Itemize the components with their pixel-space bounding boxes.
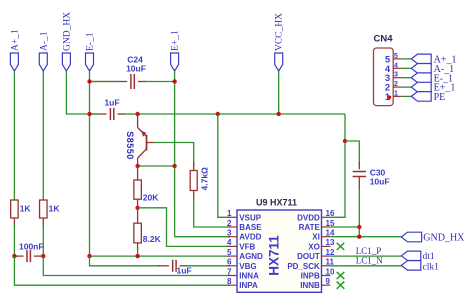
resistor R-4.7k bbox=[190, 171, 197, 191]
wire pin11 PD_SCK to clk1 bbox=[330, 265, 401, 267]
svg-text:INNA: INNA bbox=[239, 272, 259, 281]
port E-_1 (top) bbox=[86, 32, 96, 71]
svg-text:XO: XO bbox=[308, 242, 320, 251]
transistor S8550 bbox=[138, 114, 153, 166]
resistor R-8.2K lead top bbox=[137, 208, 139, 223]
wire pin12 DOUT to dt1 bbox=[330, 255, 401, 257]
svg-text:1: 1 bbox=[394, 90, 398, 97]
resistor R-1K (A+) bbox=[11, 200, 19, 218]
CN4 pin 4 lead bbox=[393, 67, 401, 69]
svg-text:A-_1: A-_1 bbox=[39, 31, 49, 51]
svg-text:clk1: clk1 bbox=[423, 263, 440, 273]
wire E+ vertical bbox=[174, 71, 176, 237]
wire right corner down to C30 node bbox=[344, 114, 346, 141]
CN4 pin1 marker dot bbox=[388, 95, 392, 99]
resistor R-1K lead bottom (A+) bbox=[13, 218, 15, 226]
capacitor C-1uF (VBG) bbox=[173, 260, 176, 272]
wire emitter node to VSUP column and VCC and right corner bbox=[138, 113, 345, 115]
wire pin14 XI to GND_HX port bbox=[330, 236, 401, 238]
svg-text:1K: 1K bbox=[20, 203, 32, 213]
svg-text:20K: 20K bbox=[143, 192, 159, 202]
wire VCC_HX vertical bbox=[278, 71, 280, 114]
wire A- vertical bbox=[42, 71, 44, 200]
pin 1 VSUP stub bbox=[228, 216, 238, 218]
junction S8550 emitter bbox=[135, 112, 139, 116]
junction E+ collector bbox=[172, 164, 176, 168]
port clk1 bbox=[401, 261, 421, 270]
pin 11 PD_SCK stub bbox=[322, 265, 331, 267]
wire 1uF to pin6 VBG bbox=[180, 265, 187, 267]
svg-text:1: 1 bbox=[227, 209, 232, 218]
capacitor C-1uF (left) bbox=[110, 108, 113, 120]
no-connect X bbox=[337, 243, 345, 250]
svg-text:LC1_P: LC1_P bbox=[356, 246, 382, 256]
svg-text:VBG: VBG bbox=[239, 262, 256, 271]
port GND_HX (top) bbox=[62, 12, 72, 71]
no-connect X bbox=[337, 282, 345, 289]
svg-text:E-_1: E-_1 bbox=[86, 32, 96, 51]
wire pin16 DVDD to VCC rail bbox=[330, 141, 345, 217]
resistor R-20K lead bottom bbox=[137, 199, 139, 208]
CN4 pin 3 lead bbox=[393, 77, 401, 79]
svg-text:4.7kΩ: 4.7kΩ bbox=[199, 167, 209, 191]
svg-text:VFB: VFB bbox=[239, 242, 255, 251]
wire CN4 pin 2 bbox=[402, 86, 412, 88]
wire CN4 pin 5 bbox=[402, 58, 412, 60]
junction GND/1uF row bbox=[87, 112, 91, 116]
svg-text:AGND: AGND bbox=[239, 252, 263, 261]
port E+_1 (top) bbox=[171, 30, 181, 71]
wire E- to C24 bbox=[90, 81, 128, 83]
port A+_1 (top) bbox=[10, 29, 20, 71]
svg-text:8: 8 bbox=[227, 277, 232, 286]
svg-text:6: 6 bbox=[227, 258, 232, 267]
wire E+ to pin3 AVDD bbox=[175, 236, 230, 238]
resistor R-20K lead top bbox=[137, 166, 139, 180]
svg-text:INPA: INPA bbox=[239, 281, 258, 290]
port VCC_HX (top) bbox=[275, 13, 285, 71]
junction collector node bbox=[135, 164, 139, 168]
wire E- vertical bbox=[89, 71, 91, 256]
svg-text:8.2K: 8.2K bbox=[143, 234, 162, 244]
resistor R-20K bbox=[134, 180, 142, 199]
resistor R-8.2K bbox=[134, 223, 142, 243]
pin 3 AVDD stub bbox=[228, 236, 238, 238]
pin 4 VFB stub bbox=[228, 245, 238, 247]
svg-text:U9 HX711: U9 HX711 bbox=[256, 198, 297, 208]
pin 9 INNB stub bbox=[322, 284, 331, 286]
svg-text:5: 5 bbox=[227, 248, 232, 257]
resistor R-8.2K lead bottom bbox=[137, 243, 139, 250]
wire CN4 pin 3 bbox=[402, 77, 412, 79]
port A-_1 (CN4) bbox=[411, 64, 431, 74]
svg-text:1uF: 1uF bbox=[104, 98, 119, 108]
capacitor C24 bbox=[131, 74, 134, 89]
connector CN4 body bbox=[374, 48, 394, 106]
svg-text:PD_SCK: PD_SCK bbox=[287, 262, 320, 271]
svg-text:S8550: S8550 bbox=[125, 131, 135, 160]
svg-text:13: 13 bbox=[326, 238, 335, 247]
CN4 pin 5 lead bbox=[393, 58, 401, 60]
wire GND node to 1uF bbox=[90, 113, 107, 115]
wire A- node down to INNA row bbox=[43, 256, 230, 275]
junction XI/GND bbox=[357, 235, 361, 239]
junction RATE/GND bbox=[357, 225, 361, 229]
wire VFB: junction right then down to pin4 bbox=[138, 208, 230, 247]
CN4 pin 1 lead bbox=[393, 95, 401, 97]
port E+_1 (CN4) bbox=[411, 82, 431, 92]
junction VCC_HX drop bbox=[277, 112, 281, 116]
svg-text:1uF: 1uF bbox=[177, 266, 192, 276]
svg-text:BASE: BASE bbox=[239, 223, 262, 232]
svg-text:PE: PE bbox=[434, 92, 446, 103]
pin 10 INPB stub bbox=[322, 275, 331, 277]
port dt1 bbox=[401, 251, 421, 260]
svg-text:dt1: dt1 bbox=[423, 252, 435, 262]
svg-text:GND_HX: GND_HX bbox=[62, 12, 72, 51]
svg-text:10: 10 bbox=[326, 267, 335, 276]
resistor R-1K (A-) bbox=[40, 200, 48, 218]
svg-text:INNB: INNB bbox=[300, 281, 320, 290]
wire A+ node down to INPA row bbox=[14, 256, 230, 285]
wire C30 bottom lead bbox=[358, 177, 360, 191]
svg-text:7: 7 bbox=[227, 267, 232, 276]
svg-text:3: 3 bbox=[227, 229, 232, 238]
wire 100nF to A- node bbox=[34, 255, 43, 257]
pin 16 DVDD stub bbox=[322, 216, 331, 218]
svg-text:GND_HX: GND_HX bbox=[423, 233, 465, 244]
junction A- node bbox=[41, 254, 45, 258]
wire 1uF to S8550 emitter node bbox=[118, 113, 126, 115]
wire GND_HX down then right to E- node bbox=[66, 71, 89, 114]
capacitor C30 bbox=[353, 172, 366, 177]
pin 5 AGND stub bbox=[228, 255, 238, 257]
wire CN4 pin 1 bbox=[402, 95, 412, 97]
wire collector node to E+ line bbox=[138, 165, 175, 167]
port E-_1 (CN4) bbox=[411, 73, 431, 83]
svg-text:E+_1: E+_1 bbox=[171, 30, 181, 51]
wire VSUP column bbox=[218, 114, 230, 217]
svg-text:CN4: CN4 bbox=[374, 34, 394, 45]
svg-text:5: 5 bbox=[394, 53, 398, 60]
wire pin15 RATE to GND line bbox=[330, 226, 359, 228]
port A+_1 (CN4) bbox=[411, 54, 431, 64]
port PE (CN4) bbox=[411, 92, 431, 102]
svg-text:XI: XI bbox=[312, 233, 320, 242]
svg-text:10uF: 10uF bbox=[126, 64, 146, 74]
port A-_1 (top) bbox=[39, 31, 49, 71]
svg-text:RATE: RATE bbox=[299, 223, 321, 232]
svg-text:INPB: INPB bbox=[301, 272, 320, 281]
wire C24 to E+ node bbox=[138, 81, 146, 83]
junction C30 tap bbox=[343, 139, 347, 143]
svg-text:1K: 1K bbox=[49, 203, 61, 213]
resistor R-4.7k lead top bbox=[193, 162, 195, 171]
junction 20K/8.2K bbox=[135, 206, 139, 210]
resistor R-1K lead bottom (A-) bbox=[42, 218, 44, 226]
pin 8 INPA stub bbox=[228, 284, 238, 286]
svg-text:4: 4 bbox=[227, 238, 232, 247]
junction VSUP drop bbox=[216, 112, 220, 116]
svg-text:HX711: HX711 bbox=[266, 235, 281, 276]
svg-text:3: 3 bbox=[394, 72, 398, 79]
pin 7 INNA stub bbox=[228, 275, 238, 277]
wire GND node to 8.2K bottom to pin5 AGND bbox=[90, 255, 231, 257]
svg-text:2: 2 bbox=[394, 81, 398, 88]
svg-text:2: 2 bbox=[227, 219, 232, 228]
svg-text:AVDD: AVDD bbox=[239, 233, 261, 242]
capacitor C-100nF bbox=[27, 250, 30, 262]
wire A+ node to 100nF bbox=[14, 255, 23, 257]
resistor R-4.7k lead bottom then wire to pin2 bbox=[193, 191, 195, 200]
svg-text:10uF: 10uF bbox=[370, 176, 390, 186]
CN4 pin 2 lead bbox=[393, 86, 401, 88]
wire CN4 pin 4 bbox=[402, 67, 412, 69]
junction 8.2K bottom bbox=[135, 254, 139, 258]
wire S8550 base to R4.7k bbox=[153, 143, 194, 168]
junction GND/AGND bbox=[87, 254, 91, 258]
svg-text:VSUP: VSUP bbox=[239, 213, 261, 222]
svg-text:VCC_HX: VCC_HX bbox=[275, 13, 285, 51]
svg-text:9: 9 bbox=[326, 277, 331, 286]
pin 13 XO stub bbox=[322, 245, 331, 247]
pin 2 BASE stub bbox=[228, 226, 238, 228]
no-connect X bbox=[337, 272, 345, 279]
wire GND branch down to VBG row bbox=[90, 256, 161, 266]
junction at E+/C24 bbox=[172, 79, 176, 83]
svg-text:A+_1: A+_1 bbox=[10, 29, 20, 51]
port GND_HX (right) bbox=[401, 232, 421, 242]
op-amp U9 HX711 body bbox=[237, 210, 322, 292]
svg-text:100nF: 100nF bbox=[19, 241, 44, 251]
pin 12 DOUT stub bbox=[322, 255, 331, 257]
svg-text:DOUT: DOUT bbox=[297, 252, 320, 261]
wire C30 top lead bbox=[345, 141, 359, 165]
pin 6 VBG stub bbox=[228, 265, 238, 267]
svg-text:4: 4 bbox=[394, 62, 398, 69]
pin 15 RATE stub bbox=[322, 226, 331, 228]
junction A+ node bbox=[12, 254, 16, 258]
wire A+ vertical bbox=[13, 71, 15, 200]
wire lead to 1uF (VBG) bbox=[158, 265, 169, 267]
junction at E-/C24 bbox=[87, 79, 91, 83]
svg-text:DVDD: DVDD bbox=[297, 213, 320, 222]
svg-text:LC1_N: LC1_N bbox=[356, 256, 384, 266]
pin 14 XI stub bbox=[322, 236, 331, 238]
